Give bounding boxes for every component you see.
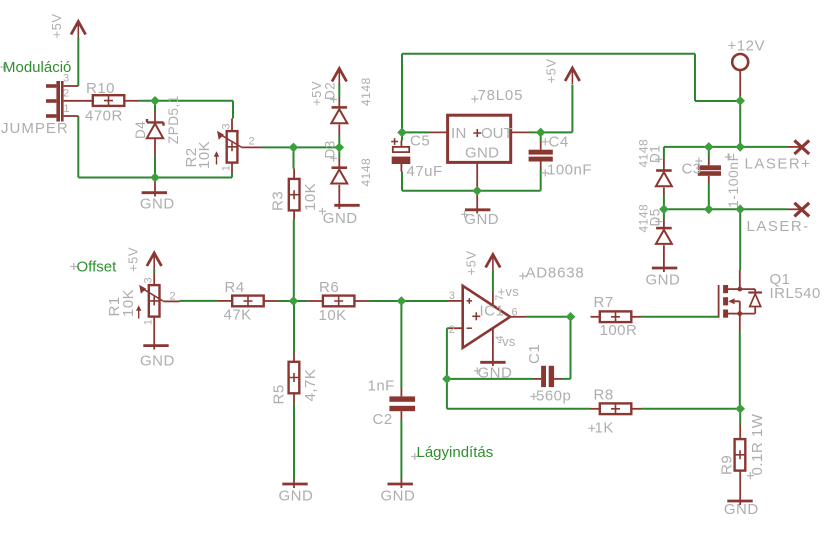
wire +12V rail to regulator input: [402, 54, 740, 133]
svg-text:3: 3: [221, 123, 233, 129]
IC1 name: [480, 303, 505, 320]
svg-text:+5V: +5V: [49, 14, 64, 39]
svg-text:D2: D2: [323, 82, 338, 100]
svg-text:GND: GND: [323, 210, 358, 227]
wire node to 78L05 IN: [402, 131, 429, 133]
ground GND (C2): [388, 479, 413, 489]
wire summing node to R6: [294, 300, 308, 302]
svg-text:AD8638: AD8638: [526, 265, 585, 282]
supply +5V arrow (JP1): [71, 22, 86, 38]
node LASER- X mark: [794, 203, 809, 217]
wire Q1 source down to sense node: [739, 331, 741, 409]
svg-text:1-100nF: 1-100nF: [725, 152, 741, 208]
svg-text:IC1: IC1: [480, 303, 505, 320]
supply +12V label: [728, 38, 765, 55]
ground GND (R5): [282, 479, 307, 489]
supply +5V arrow (78L05 OUT): [565, 68, 580, 84]
GND label (D5): [646, 272, 681, 289]
R1 pin label 1: [143, 319, 155, 325]
diode D1: [656, 159, 672, 196]
svg-text:R3: R3: [270, 191, 287, 211]
R10 value 470R: [85, 108, 123, 125]
svg-text:Lágyindítás: Lágyindítás: [417, 444, 494, 461]
R8 value 1K: [588, 420, 614, 437]
GND label (IC1): [474, 365, 513, 382]
resistor R8: [591, 403, 642, 414]
D2 value 4148: [359, 77, 373, 106]
capacitor C4: [529, 141, 553, 170]
C1 value 560p: [530, 387, 571, 404]
svg-text:3: 3: [449, 290, 455, 302]
IC1 label -vs: [498, 334, 516, 349]
D5 value 4148: [637, 204, 651, 233]
GND label (78L05): [461, 211, 499, 228]
R5 name: [271, 384, 288, 404]
svg-text:OUT: OUT: [481, 125, 513, 142]
svg-text:C1: C1: [526, 344, 543, 364]
node LASER+ X mark: [794, 140, 809, 154]
D3 name: [323, 140, 338, 162]
GND label (R5): [279, 488, 314, 505]
78L05 name: [471, 87, 523, 104]
78L05 label IN: [451, 125, 467, 142]
supply +5V label (JP1): [49, 14, 64, 39]
JP1 pin 1: [64, 115, 79, 117]
R1 pin label 3: [143, 277, 155, 283]
svg-text:GND: GND: [140, 353, 175, 370]
resistor R4: [218, 296, 278, 307]
R2 value 10K: [196, 141, 213, 169]
wire R8 to sense node: [641, 408, 740, 410]
wire op-amp output net: [526, 316, 571, 318]
pin stub LASER-: [787, 208, 802, 210]
R6 value 10K: [319, 307, 347, 324]
connector JP1 JUMPER body: [46, 81, 64, 122]
JP1 name JUMPER: [1, 120, 69, 137]
wire +12V node down to LASER+ node: [739, 101, 741, 147]
svg-text:3: 3: [143, 277, 155, 283]
svg-text:4,7K: 4,7K: [302, 369, 319, 402]
wire clamp node to D3 cathode: [338, 147, 340, 158]
label Lágyindítás: [411, 444, 493, 461]
wire GND bus (JP1/D4/R2): [78, 173, 232, 178]
wire sense node to R9: [739, 409, 741, 425]
78L05 pin OUT: [511, 131, 530, 133]
wire net R10 to R2 pin3: [139, 101, 233, 119]
78L05 pin GND: [476, 162, 478, 190]
R3 value 10K: [302, 183, 319, 211]
R3 name: [270, 191, 287, 211]
svg-text:6: 6: [512, 306, 518, 318]
R4 value 47K: [224, 307, 252, 324]
svg-text:R4: R4: [225, 279, 245, 296]
label Offset: [70, 259, 117, 276]
svg-text:78L05: 78L05: [478, 87, 524, 104]
GND label (D3): [319, 208, 358, 227]
supply +5V arrow (op-amp): [486, 255, 501, 271]
R7 name: [594, 294, 614, 311]
svg-text:4148: 4148: [359, 158, 373, 187]
R4 name: [225, 279, 245, 296]
capacitor C3: [698, 158, 721, 184]
wire R1 wiper to R4: [180, 300, 218, 302]
D1 name: [648, 145, 663, 163]
R1 pin label 2: [170, 291, 176, 303]
R5 value 4,7K: [302, 369, 319, 402]
IC1 pin label 2: [449, 324, 455, 336]
svg-text:JUMPER: JUMPER: [1, 120, 69, 137]
label LASER+: [745, 156, 812, 173]
label Moduláció: [0, 59, 71, 76]
diode D3: [331, 158, 347, 209]
wire D2 anode to clamp node: [338, 137, 340, 148]
svg-text:GND: GND: [478, 365, 513, 382]
78L05 label GND: [465, 145, 499, 162]
svg-text:+12V: +12V: [728, 38, 765, 55]
resistor R9: [735, 425, 746, 506]
svg-text:1: 1: [221, 165, 233, 171]
R6 name: [319, 279, 339, 296]
wire R3 bottom to summing node: [293, 220, 295, 301]
supply +5V arrow (D2): [332, 69, 347, 85]
svg-text:10K: 10K: [120, 289, 137, 317]
svg-text:10K: 10K: [302, 183, 319, 211]
JP1 pin 3: [64, 85, 79, 87]
svg-text:4148: 4148: [359, 77, 373, 106]
wire D4 anode to GND bus: [154, 156, 156, 178]
capacitor C5 (polarized): [391, 138, 410, 171]
wire node to C5 top: [401, 132, 403, 140]
svg-text:IRL540: IRL540: [770, 285, 821, 302]
wire LASER- down to Q1 drain: [739, 209, 741, 270]
C4 value 100nF: [542, 162, 592, 179]
wire OUT node to C4 top: [540, 132, 542, 141]
svg-text:GND: GND: [381, 488, 416, 505]
trimmer R2: [214, 119, 262, 174]
resistor R6: [308, 296, 370, 307]
GND label (JP1/D4): [140, 196, 175, 213]
R9 value 0.1R 1W: [747, 413, 766, 479]
svg-text:C4: C4: [549, 134, 569, 151]
pin stub LASER+: [787, 146, 802, 148]
R2 pin label 2: [249, 136, 255, 148]
JP1 pin 2: [64, 100, 93, 102]
wire feedback node to R8: [447, 408, 591, 410]
op-amp IC1 AD8638: [448, 286, 526, 366]
regulator 78L05 body: [448, 115, 511, 162]
wire regulator gnd rail: [402, 190, 541, 192]
Q1 value IRL540: [770, 285, 821, 302]
svg-text:+vs: +vs: [498, 284, 520, 299]
diode D5: [656, 219, 672, 272]
D4 name: [133, 121, 148, 139]
svg-text:+5V: +5V: [126, 247, 141, 272]
svg-text:D3: D3: [323, 140, 338, 158]
ground GND (D5): [652, 267, 677, 270]
svg-text:Moduláció: Moduláció: [3, 59, 71, 76]
GND label (R1): [140, 353, 175, 370]
capacitor C1: [533, 366, 562, 387]
ground GND (R1): [143, 346, 168, 350]
IC1 label +vs: [498, 284, 520, 299]
78L05 pin IN: [429, 131, 448, 133]
wire node down to C2: [400, 301, 402, 389]
svg-text:R8: R8: [594, 386, 614, 403]
IC1 pin label 7: [494, 295, 506, 301]
svg-text:470R: 470R: [85, 108, 123, 125]
svg-text:1: 1: [143, 319, 155, 325]
svg-text:4148: 4148: [637, 204, 651, 233]
svg-text:2: 2: [249, 136, 255, 148]
wire summing node down to R5: [293, 301, 295, 353]
C3 name: [682, 158, 703, 178]
svg-text:LASER-: LASER-: [747, 218, 810, 235]
wire net LASER+: [664, 147, 787, 159]
supply +5V arrow (R1): [147, 253, 162, 269]
svg-text:C2: C2: [373, 411, 393, 428]
wire feedback vertical (pin2): [447, 328, 450, 409]
wire C3 bottom to LASER-: [708, 184, 710, 210]
R7 value 100R: [600, 322, 638, 339]
svg-text:R6: R6: [319, 279, 339, 296]
R9 name: [719, 455, 736, 475]
C5 name: [410, 133, 430, 150]
svg-text:2: 2: [170, 291, 176, 303]
svg-text:IN: IN: [451, 125, 467, 142]
wire R4 to summing node: [278, 300, 294, 302]
ground GND (78L05): [465, 191, 490, 214]
C4 name: [542, 134, 569, 151]
svg-text:GND: GND: [279, 488, 314, 505]
JP1 pin label 1: [63, 103, 69, 115]
wire net LASER-: [664, 208, 787, 210]
wire C1 left to feedback node: [447, 378, 533, 380]
R2 pin label 3: [221, 123, 233, 129]
78L05 label OUT: [481, 125, 513, 142]
R1 value 10K: [120, 289, 137, 317]
svg-text:1K: 1K: [595, 420, 614, 437]
R8 name: [594, 386, 614, 403]
IC1 pin label 6: [512, 306, 518, 318]
wire node down to R3 top: [293, 147, 295, 168]
svg-text:4148: 4148: [637, 139, 651, 168]
JP1 pin label 2: [63, 87, 69, 99]
wire R2 wiper net to R3/D3 node: [262, 146, 339, 148]
GND label (R9): [724, 501, 759, 518]
wire 78L05 OUT net: [530, 85, 573, 133]
wire R6 to op-amp pin3: [370, 300, 448, 302]
svg-text:560p: 560p: [536, 387, 571, 404]
wire C4 bottom to gnd rail: [540, 170, 542, 191]
supply +5V label (D2): [309, 81, 324, 106]
svg-text:LASER+: LASER+: [745, 156, 812, 173]
wire C2 bottom to GND: [400, 420, 402, 479]
D3 value 4148: [359, 158, 373, 187]
zener diode D4: [147, 112, 164, 156]
ground GND (D3): [334, 204, 359, 207]
svg-text:R7: R7: [594, 294, 614, 311]
IC1 origin cross: [472, 312, 480, 320]
transistor Q1 IRL540: [719, 270, 762, 331]
wire R7 to Q1 gate: [641, 316, 719, 318]
svg-text:Offset: Offset: [77, 259, 118, 276]
IC1 pin label 4: [494, 335, 506, 341]
resistor R10: [93, 95, 139, 106]
svg-text:R5: R5: [271, 384, 288, 404]
svg-text:GND: GND: [464, 211, 499, 228]
svg-text:0.1R 1W: 0.1R 1W: [749, 413, 766, 475]
svg-text:+5V: +5V: [544, 59, 559, 84]
supply +5V label (op-amp): [463, 251, 478, 276]
wire R5 bottom to GND: [293, 403, 295, 479]
svg-text:47K: 47K: [224, 307, 252, 324]
ground GND (JP1/D4): [142, 178, 167, 197]
wire JP1 pin1 down to GND bus: [77, 116, 79, 178]
resistor R3: [289, 169, 300, 221]
svg-text:GND: GND: [465, 145, 499, 162]
capacitor C2: [389, 389, 415, 421]
R2 name: [183, 147, 200, 167]
svg-text:1nF: 1nF: [368, 378, 395, 395]
wire output node down to C1 right: [562, 317, 571, 379]
svg-text:100nF: 100nF: [547, 162, 592, 179]
wire node at R10 down to D4: [154, 101, 156, 112]
JP1 pin label 3: [63, 72, 69, 84]
wire +5V arrow to R1: [153, 269, 155, 273]
wire +5V arrow to op-amp +vs: [492, 271, 494, 293]
C3 value 1-100nF: [725, 152, 741, 208]
supply +12V symbol: [732, 54, 748, 101]
resistor R7: [591, 311, 642, 322]
C5 value 47uF: [407, 163, 443, 180]
svg-text:10K: 10K: [196, 141, 213, 169]
svg-text:2: 2: [63, 87, 69, 99]
supply +5V label (R1): [126, 247, 141, 272]
C1 name: [526, 344, 543, 364]
C2 value 1nF: [368, 378, 395, 395]
svg-text:D4: D4: [133, 121, 148, 139]
IC1 label AD8638: [519, 265, 584, 282]
svg-text:+5V: +5V: [463, 251, 478, 276]
svg-text:100R: 100R: [600, 322, 638, 339]
resistor R5: [289, 353, 300, 404]
svg-text:R9: R9: [719, 455, 736, 475]
svg-text:GND: GND: [140, 196, 175, 213]
ground GND (R9): [727, 500, 752, 503]
svg-text:GND: GND: [724, 501, 759, 518]
svg-text:C5: C5: [410, 133, 430, 150]
label LASER-: [747, 218, 810, 235]
wire D1 anode to LASER-: [663, 195, 665, 209]
78L05 origin cross: [473, 129, 481, 137]
svg-text:R10: R10: [86, 80, 115, 97]
wire C5 bottom to gnd rail: [401, 172, 403, 191]
diode D2: [331, 97, 347, 137]
svg-text:10K: 10K: [319, 307, 347, 324]
ground GND (IC1): [480, 361, 505, 364]
svg-text:47uF: 47uF: [407, 163, 443, 180]
Q1 name: [770, 271, 791, 288]
C2 name: [373, 411, 393, 428]
supply +5V label (78L05 OUT): [544, 59, 559, 84]
svg-text:1: 1: [63, 103, 69, 115]
svg-text:GND: GND: [646, 272, 681, 289]
trimmer R1: [136, 273, 180, 346]
wire +5V arrow to JP1 pin3: [77, 38, 79, 87]
wire LASER- to D5 cathode: [663, 209, 665, 219]
svg-text:ZPD5,1: ZPD5,1: [166, 95, 181, 144]
GND label (C2): [381, 488, 416, 505]
R2 pin label 1: [221, 165, 233, 171]
D2 name: [323, 82, 338, 103]
D4 value ZPD5,1: [166, 95, 181, 144]
wire +5V arrow to D2: [338, 84, 340, 98]
D5 name: [648, 208, 663, 226]
D1 value 4148: [637, 139, 651, 168]
svg-text:2: 2: [449, 324, 455, 336]
R1 name: [106, 296, 123, 316]
R10 name: [86, 80, 115, 97]
svg-text:-vs: -vs: [498, 334, 516, 349]
IC1 pin label 3: [449, 290, 455, 302]
